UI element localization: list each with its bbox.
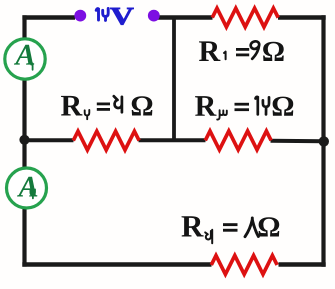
wire top-right segment bbox=[278, 15, 326, 19]
label R1 = 6 ohm bbox=[199, 41, 284, 61]
battery value label 12V bbox=[96, 9, 108, 21]
wire middle horizontal right (R3 to node) bbox=[271, 139, 324, 143]
wire middle horizontal left (node to R2) bbox=[25, 138, 74, 142]
label R2 = 4 ohm bbox=[61, 96, 152, 119]
ammeter A1 bbox=[5, 39, 45, 79]
wire center vertical stub bbox=[172, 18, 176, 141]
wire left vertical lower (A2 to bottom corner) bbox=[22, 208, 26, 267]
resistor R1 bbox=[212, 8, 278, 27]
wire right vertical bbox=[321, 15, 325, 266]
battery negative terminal dot bbox=[148, 10, 160, 22]
battery positive terminal dot bbox=[74, 10, 86, 22]
ammeter A2 bbox=[7, 168, 47, 208]
wire left vertical upper (corner to A1) bbox=[22, 15, 26, 39]
resistor R4 bbox=[211, 256, 277, 275]
node B (right junction dot) bbox=[319, 136, 329, 146]
wire left vertical middle (A1 to A2) bbox=[22, 79, 26, 169]
wire top-left segment bbox=[22, 15, 75, 19]
node A (left junction dot) bbox=[19, 135, 29, 145]
label R3 = 12 ohm bbox=[195, 96, 293, 119]
resistor R2 bbox=[73, 131, 139, 150]
wire middle horizontal center (R2 to R3) bbox=[139, 138, 206, 142]
wire bottom-right segment bbox=[279, 262, 326, 266]
label R4 = 8 ohm bbox=[182, 216, 280, 243]
resistor R3 bbox=[205, 131, 271, 150]
wire top-middle segment (between battery and R1) bbox=[154, 15, 213, 19]
wire bottom-left segment bbox=[22, 262, 211, 266]
